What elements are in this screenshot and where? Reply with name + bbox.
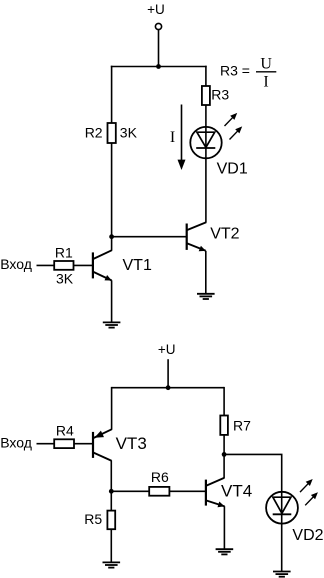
current arrow I <box>178 105 186 171</box>
resistor R4 <box>54 439 74 448</box>
ground (VT2 emitter) <box>197 294 215 299</box>
wire Вход to R4 <box>37 443 55 445</box>
svg-text:R6: R6 <box>151 469 169 485</box>
resistor R7 <box>220 416 228 435</box>
svg-text:R2: R2 <box>85 125 103 141</box>
+U terminal circle <box>155 23 161 29</box>
wire R6 to VT4 base <box>169 490 205 492</box>
transistor VT1 <box>93 236 112 322</box>
light arrow VD2 b <box>305 492 318 505</box>
svg-text:Вход: Вход <box>0 256 32 272</box>
svg-text:Вход: Вход <box>0 434 32 450</box>
svg-text:VT1: VT1 <box>123 257 152 274</box>
resistor R5 <box>107 511 115 530</box>
ground (R5) <box>103 562 121 567</box>
wire junction to R5 <box>110 491 112 510</box>
wire rail to R7 <box>223 387 225 416</box>
wire R1 to VT1 base <box>74 264 93 266</box>
wire R7 to junction <box>223 435 225 455</box>
wire bottom rail <box>112 387 225 389</box>
svg-text:R3: R3 <box>211 87 229 103</box>
wire junction to R6 <box>111 490 149 492</box>
svg-text:3K: 3K <box>120 125 138 141</box>
wire R3 through VD1 to VT2 collector <box>205 105 207 223</box>
svg-text:R5: R5 <box>84 511 102 527</box>
formula R3 = U/I <box>220 55 276 90</box>
svg-text:R7: R7 <box>233 417 251 433</box>
svg-text:3K: 3K <box>56 271 74 287</box>
svg-text:VD2: VD2 <box>292 527 323 544</box>
wire R2 to junction <box>111 143 113 237</box>
junction R7 / VT4 collector / VD2 <box>222 452 227 457</box>
wire R4 to VT3 base <box>74 443 92 445</box>
svg-text:+U: +U <box>158 342 176 357</box>
wire R5 to ground <box>110 529 112 562</box>
ground (VT4 emitter) <box>216 549 234 554</box>
svg-text:U: U <box>260 55 272 72</box>
wire rail to VT3 emitter <box>111 387 113 430</box>
wire +U terminal to top rail <box>158 30 160 67</box>
light arrow VD1 b <box>230 126 243 139</box>
resistor R6 <box>149 487 169 496</box>
junction VT1 collector / VT2 base <box>109 234 114 239</box>
svg-text:I: I <box>170 129 175 146</box>
light arrow VD2 a <box>300 479 313 492</box>
light arrow VD1 a <box>225 113 238 126</box>
wire junction to VD2 <box>224 454 282 571</box>
svg-text:R1: R1 <box>55 244 73 260</box>
svg-text:VT3: VT3 <box>116 434 147 453</box>
svg-text:VT4: VT4 <box>221 481 252 500</box>
svg-text:VD1: VD1 <box>217 160 248 177</box>
svg-text:I: I <box>263 73 268 90</box>
wire Вход to R1 <box>37 264 55 266</box>
ground (VD2) <box>273 572 291 577</box>
transistor VT2 <box>187 222 207 293</box>
resistor R3 <box>202 86 210 105</box>
wire rail to R3 <box>205 66 207 86</box>
svg-text:VT2: VT2 <box>210 225 239 242</box>
wire top rail <box>111 66 207 68</box>
ground (VT1 emitter) <box>103 322 121 327</box>
resistor R2 <box>108 123 116 143</box>
junction VT3 collector / R5 / R6 <box>109 489 114 494</box>
transistor VT3 (PNP) <box>93 429 112 491</box>
wire rail to R2 <box>111 66 113 123</box>
LED VD2 <box>266 492 298 524</box>
svg-text:+U: +U <box>147 2 165 17</box>
LED VD1 <box>190 127 221 158</box>
resistor R1 <box>54 261 73 270</box>
junction +U/bottom rail <box>166 385 171 390</box>
svg-text:R4: R4 <box>56 423 74 439</box>
svg-text:R3 =: R3 = <box>220 63 250 79</box>
transistor VT4 <box>206 454 225 549</box>
junction +U/rail <box>156 64 161 69</box>
wire junction to VT2 base <box>112 236 187 238</box>
wire +U to bottom rail <box>167 359 169 388</box>
